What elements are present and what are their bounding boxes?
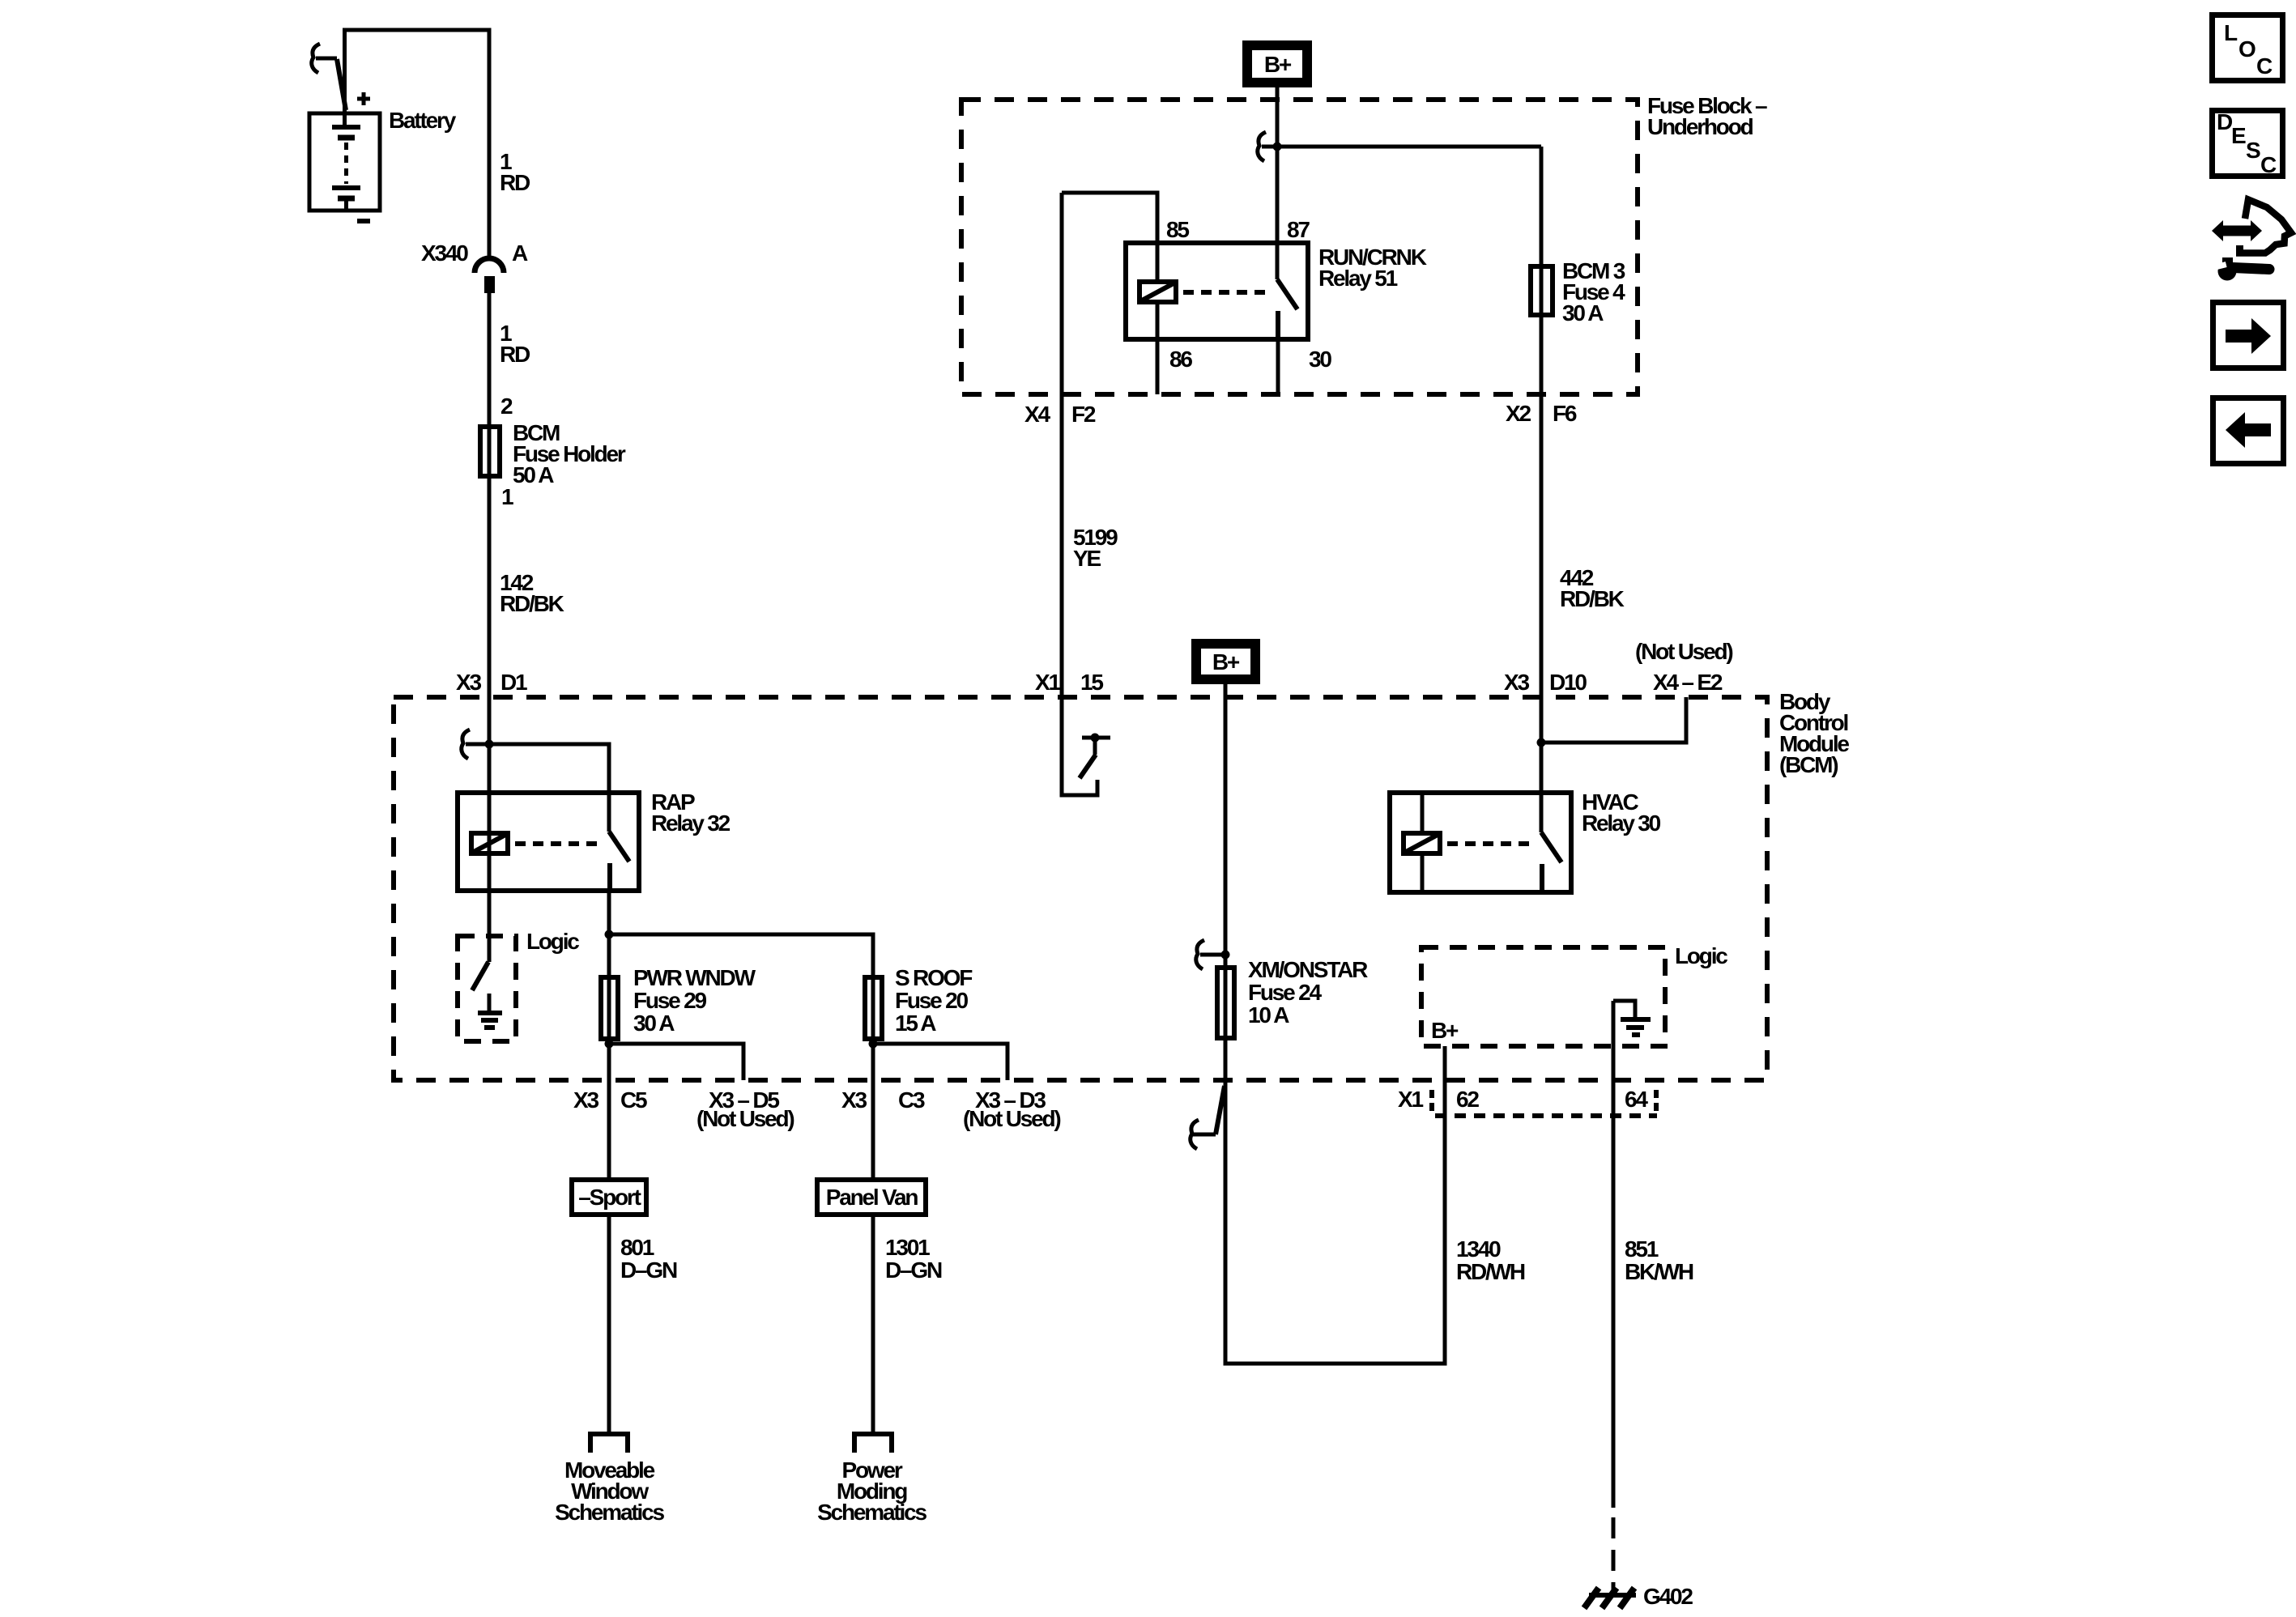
relay 51 switch blade xyxy=(1277,279,1297,309)
svg-text:D1: D1 xyxy=(501,670,527,695)
relay 51 switch contact stub xyxy=(1276,311,1280,339)
wire X4-F2 run 5199 YE xyxy=(1060,193,1064,795)
svg-text:85: 85 xyxy=(1166,217,1189,242)
svg-text:87: 87 xyxy=(1287,217,1310,242)
battery minus sign xyxy=(357,219,370,223)
icon wrench xyxy=(2213,257,2269,281)
connector clip at X3-D1 junction xyxy=(462,730,470,759)
relay 32 coil diagonal xyxy=(474,835,505,852)
node junction D1 xyxy=(485,740,494,749)
wire X1-15 into BCM logic switch xyxy=(1062,697,1097,795)
svg-text:Relay 51: Relay 51 xyxy=(1318,266,1398,291)
svg-text:1301: 1301 xyxy=(885,1235,930,1260)
logic switch blade left xyxy=(472,962,488,990)
wire clip to XM wire xyxy=(1200,953,1225,957)
node junction D10 xyxy=(1537,738,1546,747)
icon vehicle outline tab xyxy=(2236,245,2243,253)
relay 32 switch contact stub xyxy=(607,863,612,891)
logic switch stub at 15 xyxy=(1093,738,1097,755)
svg-text:1340: 1340 xyxy=(1456,1236,1501,1262)
svg-text:A: A xyxy=(512,240,528,266)
wire F6 down through fuse BCM 3 xyxy=(1540,147,1544,793)
ground inside logic left xyxy=(478,994,502,1028)
relay RUN/CRNK Relay 51 box xyxy=(1126,243,1308,339)
svg-text:(Not Used): (Not Used) xyxy=(963,1106,1060,1131)
svg-text:L: L xyxy=(2224,20,2238,45)
wire not used stub X4-E2 xyxy=(1541,697,1686,743)
relay 30 coil lead lower xyxy=(1421,856,1425,892)
svg-text:(BCM): (BCM) xyxy=(1779,752,1838,777)
svg-text:C5: C5 xyxy=(620,1087,647,1113)
svg-text:PWR WNDW: PWR WNDW xyxy=(633,965,756,990)
logic box right dashed xyxy=(1421,947,1665,1046)
svg-text:RD: RD xyxy=(500,342,530,367)
wire B+ middle down to XM fuse xyxy=(1224,684,1228,965)
node junction XM feed xyxy=(1221,951,1230,960)
terminator moveable window xyxy=(590,1434,628,1453)
svg-text:Fuse 20: Fuse 20 xyxy=(895,988,969,1013)
wire branch to S ROOF fuse xyxy=(609,934,873,975)
svg-text:RD: RD xyxy=(500,170,530,195)
svg-text:30: 30 xyxy=(1309,347,1331,372)
svg-text:B+: B+ xyxy=(1212,649,1240,674)
svg-text:D10: D10 xyxy=(1549,670,1587,695)
wire RAP output to fuse row xyxy=(607,891,611,975)
connector X340 terminal pin xyxy=(484,276,495,293)
wire X340 to BCM fuse holder xyxy=(488,293,492,424)
wire S ROOF output down to Panel Van xyxy=(871,1041,875,1177)
svg-text:X2: X2 xyxy=(1506,401,1531,426)
node junction below fuse 20 xyxy=(869,1040,878,1049)
svg-text:XM/ONSTAR: XM/ONSTAR xyxy=(1248,957,1368,982)
body control module dashed box xyxy=(394,697,1767,1080)
svg-text:BK/WH: BK/WH xyxy=(1625,1259,1693,1284)
svg-text:Fuse 29: Fuse 29 xyxy=(633,988,707,1013)
svg-text:C3: C3 xyxy=(898,1087,925,1113)
fuse BCM Fuse Holder 50 A xyxy=(480,427,500,476)
wire clip lead at battery xyxy=(316,57,337,61)
relay 32 switch pivot feed xyxy=(607,744,611,832)
wire Sport to moveable window schematics xyxy=(607,1217,611,1434)
ground G402 xyxy=(1584,1588,1636,1608)
svg-text:S ROOF: S ROOF xyxy=(895,965,973,990)
wire relay 51 pin 86 to block edge xyxy=(1156,339,1160,394)
logic switch blade at 15 xyxy=(1080,755,1096,778)
icon double arrow xyxy=(2212,220,2262,241)
connector clip at B+ junction xyxy=(1258,132,1266,161)
svg-text:X4 – E2: X4 – E2 xyxy=(1653,670,1723,695)
power feed B+ top xyxy=(1242,40,1312,87)
svg-text:YE: YE xyxy=(1073,546,1101,571)
svg-text:Logic: Logic xyxy=(526,929,579,954)
svg-text:64: 64 xyxy=(1625,1087,1648,1112)
svg-text:Fuse 24: Fuse 24 xyxy=(1248,980,1323,1005)
wire not used stub X3-D3 xyxy=(873,1044,1007,1080)
wire battery positive to top rail xyxy=(345,30,490,261)
svg-text:E: E xyxy=(2231,123,2246,148)
icon LOC box xyxy=(2213,15,2283,81)
connector X340 arc xyxy=(475,258,504,273)
svg-text:RD/BK: RD/BK xyxy=(1560,586,1625,611)
relay 30 actuator dashed link xyxy=(1447,841,1534,846)
svg-text:C: C xyxy=(2256,53,2273,79)
wire B+ down to relay 51 pin 87 xyxy=(1276,87,1280,279)
fuse XM/ONSTAR Fuse 24 10 A xyxy=(1217,968,1234,1038)
svg-text:15 A: 15 A xyxy=(895,1011,936,1036)
relay 51 coil lead lower xyxy=(1156,304,1160,339)
svg-text:Underhood: Underhood xyxy=(1647,114,1753,139)
option box -Sport xyxy=(572,1180,646,1215)
icon vehicle repair outline xyxy=(2236,200,2291,253)
svg-text:801: 801 xyxy=(620,1235,654,1260)
svg-text:(Not Used): (Not Used) xyxy=(696,1106,794,1131)
svg-text:B+: B+ xyxy=(1264,52,1292,77)
connector clip at battery positive xyxy=(312,44,320,73)
svg-text:X1: X1 xyxy=(1398,1087,1423,1112)
wire fuse holder to BCM connector X3-D1 xyxy=(488,424,492,479)
svg-text:D–GN: D–GN xyxy=(620,1257,677,1283)
svg-text:Logic: Logic xyxy=(1675,943,1727,968)
logic box left dashed xyxy=(458,936,516,1041)
fuse S ROOF Fuse 20 15 A xyxy=(865,977,882,1039)
svg-text:30 A: 30 A xyxy=(1562,300,1604,326)
wire PWR WNDW output down to Sport xyxy=(607,1041,611,1177)
svg-text:851: 851 xyxy=(1625,1236,1659,1262)
svg-text:15: 15 xyxy=(1080,670,1103,695)
node junction B+ feed xyxy=(1273,143,1282,151)
wire 851 dashed to ground xyxy=(1612,1517,1616,1595)
power feed B+ middle xyxy=(1191,639,1260,684)
svg-text:2: 2 xyxy=(501,394,513,419)
svg-text:X1: X1 xyxy=(1035,670,1060,695)
svg-text:Schematics: Schematics xyxy=(555,1500,664,1525)
wire clip diagonal at battery xyxy=(337,59,346,110)
svg-text:Panel Van: Panel Van xyxy=(826,1185,918,1210)
svg-text:Relay 32: Relay 32 xyxy=(651,811,731,836)
fuse BCM 3 Fuse 4 30 A xyxy=(1531,266,1553,315)
wire D1 junction to RAP switch xyxy=(466,744,609,793)
svg-text:X3: X3 xyxy=(573,1087,598,1113)
svg-text:86: 86 xyxy=(1169,347,1192,372)
battery plus sign xyxy=(357,92,370,105)
relay 30 coil xyxy=(1404,833,1440,853)
connector clip at XM junction xyxy=(1196,940,1204,969)
svg-text:62: 62 xyxy=(1456,1087,1479,1112)
battery xyxy=(309,113,380,211)
svg-text:X4: X4 xyxy=(1024,402,1050,427)
svg-text:F2: F2 xyxy=(1071,402,1096,427)
svg-text:10 A: 10 A xyxy=(1248,1002,1289,1028)
relay 30 switch contact stub xyxy=(1540,864,1544,892)
wire XM output down and across to 62 xyxy=(1225,1040,1445,1364)
svg-text:X3: X3 xyxy=(456,670,481,695)
svg-text:Battery: Battery xyxy=(389,108,457,133)
node junction RAP output xyxy=(605,930,614,939)
svg-text:D–GN: D–GN xyxy=(885,1257,942,1283)
terminator power moding xyxy=(854,1434,892,1453)
relay 51 coil diagonal xyxy=(1142,283,1174,300)
wire 64 ground run 851 BK/WH xyxy=(1612,1001,1616,1508)
wire Panel Van to power moding schematics xyxy=(871,1217,875,1434)
wire D10 to HVAC relay xyxy=(1540,697,1544,832)
relay 32 switch blade xyxy=(609,832,629,862)
svg-text:RD/BK: RD/BK xyxy=(500,591,564,616)
relay 32 coil xyxy=(471,833,508,853)
relay RAP Relay 32 box xyxy=(458,793,639,891)
fuse block underhood dashed box xyxy=(961,100,1638,394)
svg-text:S: S xyxy=(2246,138,2260,163)
svg-text:(Not Used): (Not Used) xyxy=(1635,639,1732,664)
svg-text:G402: G402 xyxy=(1643,1584,1693,1609)
relay HVAC Relay 30 box xyxy=(1390,793,1571,892)
logic switch bar at 15 xyxy=(1082,736,1110,740)
svg-text:O: O xyxy=(2238,36,2256,62)
node dot at 15 bar xyxy=(1091,734,1100,743)
svg-text:Relay 30: Relay 30 xyxy=(1582,811,1661,836)
wire coil lead into logic box xyxy=(488,744,492,962)
relay 30 coil diagonal xyxy=(1406,835,1438,852)
svg-text:Schematics: Schematics xyxy=(817,1500,926,1525)
svg-text:X340: X340 xyxy=(421,240,468,266)
ground inside logic right xyxy=(1613,1001,1651,1035)
inline connector on XM output xyxy=(1191,1086,1225,1149)
wire B+ junction to fuse F6 xyxy=(1262,145,1541,149)
icon arrow right box xyxy=(2213,303,2284,368)
relay 51 actuator dashed link xyxy=(1183,290,1270,295)
svg-text:F6: F6 xyxy=(1553,401,1577,426)
svg-text:X3: X3 xyxy=(841,1087,867,1113)
svg-text:1: 1 xyxy=(501,484,513,509)
svg-text:50 A: 50 A xyxy=(513,462,554,487)
relay 32 actuator dashed link xyxy=(515,841,602,846)
relay 51 coil xyxy=(1139,282,1176,302)
svg-text:D: D xyxy=(2217,109,2233,134)
icon arrow left box xyxy=(2213,398,2284,464)
option box Panel Van xyxy=(817,1180,926,1215)
svg-text:RD/WH: RD/WH xyxy=(1456,1259,1525,1284)
relay 30 coil lead upper xyxy=(1421,793,1425,832)
svg-text:B+: B+ xyxy=(1431,1018,1459,1043)
svg-text:30 A: 30 A xyxy=(633,1011,675,1036)
wire relay 51 pin 85 loop xyxy=(1062,193,1157,280)
svg-text:–Sport: –Sport xyxy=(578,1185,641,1210)
wire relay 51 pin 30 to block edge xyxy=(1276,339,1280,394)
svg-text:C: C xyxy=(2260,152,2277,177)
node junction below fuse 29 xyxy=(605,1040,614,1049)
connector X1 strip dashes xyxy=(1432,1090,1657,1116)
icon DESC box xyxy=(2213,109,2283,177)
svg-text:X3: X3 xyxy=(1504,670,1529,695)
wire not used stub X3-D5 xyxy=(609,1044,743,1080)
relay 30 switch blade xyxy=(1541,832,1561,862)
fuse PWR WNDW Fuse 29 30 A xyxy=(601,977,618,1039)
